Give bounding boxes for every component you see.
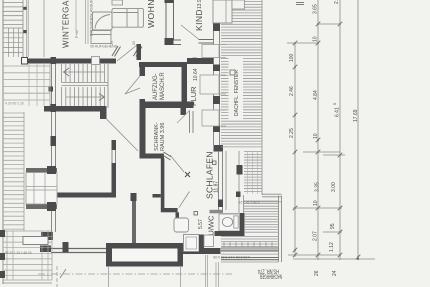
left boundary line xyxy=(2,0,4,284)
bay window panes xyxy=(26,173,57,205)
svg-text:17.69: 17.69 xyxy=(353,109,359,122)
thin vertical line a xyxy=(108,266,110,287)
railing glazing grid xyxy=(3,28,23,57)
svg-text:5.57: 5.57 xyxy=(198,219,204,229)
window wall stub upper xyxy=(112,140,117,150)
svg-text:95 30 1.33 1.66 30: 95 30 1.33 1.66 30 xyxy=(5,251,32,255)
wall right of shower xyxy=(199,235,204,254)
kind room bottom wall right part xyxy=(199,40,215,44)
window wall stub lower xyxy=(112,163,117,193)
svg-text:2.46: 2.46 xyxy=(289,86,295,96)
wall4 thin double line xyxy=(51,248,106,250)
wall stub above shaft head xyxy=(131,193,137,201)
svg-text:KIND: KIND xyxy=(194,9,204,31)
dimension chain D line xyxy=(357,0,359,257)
wall right of toilet xyxy=(240,213,245,231)
aufzug room left wall upper xyxy=(140,62,146,76)
chimney block bedroom xyxy=(237,165,243,175)
schrankraum left wall xyxy=(140,108,146,159)
svg-text:AUFZUG-: AUFZUG- xyxy=(153,73,159,100)
neighbour boundary top double line xyxy=(262,193,282,195)
right wall step chunk xyxy=(214,145,224,152)
hatch between ridge bands xyxy=(221,251,279,253)
aufzug wall stub below xyxy=(181,108,187,115)
svg-text:DACHFL. FENSTER: DACHFL. FENSTER xyxy=(234,69,240,116)
aufzug room left wall lower xyxy=(140,99,146,107)
wall right of shaft xyxy=(183,248,221,254)
wintergarten railing rungs xyxy=(3,0,23,57)
svg-text:4.84: 4.84 xyxy=(313,90,319,100)
wall line down to shaft xyxy=(132,201,136,243)
svg-text:24: 24 xyxy=(332,270,338,276)
left exterior wall upper window xyxy=(52,63,56,106)
roof right edge xyxy=(261,0,263,195)
svg-text:13.9: 13.9 xyxy=(197,0,203,9)
wall right of flur top xyxy=(187,58,214,64)
lower terrace edge xyxy=(23,112,25,231)
window niche 1 xyxy=(202,45,219,58)
lower boundary line xyxy=(244,201,282,203)
window niche 3 xyxy=(202,110,219,126)
bay window dark block bottom xyxy=(47,202,56,211)
wall4 left dark piece xyxy=(40,246,51,253)
property dash-dot line xyxy=(38,273,232,275)
top equals mark xyxy=(296,3,304,5)
bay window dark block top xyxy=(47,166,56,174)
svg-text:RAUM 3.96: RAUM 3.96 xyxy=(160,123,166,151)
left wall small pier a xyxy=(49,87,54,92)
toilet xyxy=(219,214,240,231)
svg-text:4.30 2.26 1.10 3.25 0.95: 4.30 2.26 1.10 3.25 0.95 xyxy=(213,255,250,259)
svg-text:20: 20 xyxy=(110,41,114,45)
schrankraum bottom wall xyxy=(140,154,165,159)
aufzug room bottom wall xyxy=(140,102,194,109)
left exterior wall middle window xyxy=(52,112,56,168)
leader line with P mark xyxy=(75,0,77,31)
duwc corner white box xyxy=(204,235,214,247)
partition tee stub xyxy=(153,194,161,198)
bedroom partition wall vertical xyxy=(161,159,165,209)
kind room left wall xyxy=(166,0,174,45)
pier in bottom room xyxy=(63,242,69,252)
upper terrace decking xyxy=(3,66,50,100)
right wall piers xyxy=(213,0,220,132)
svg-text:2.0: 2.0 xyxy=(334,0,340,4)
svg-text:MASCH.R: MASCH.R xyxy=(160,72,166,100)
washbasin xyxy=(174,218,189,232)
svg-text:WOHNEN: WOHNEN xyxy=(146,0,156,28)
stair arrow up xyxy=(64,68,70,76)
partition bottom wall xyxy=(161,208,178,212)
door width tick right xyxy=(134,46,143,57)
flur bedroom divider wall xyxy=(189,111,191,133)
main roof hatch lower xyxy=(244,152,262,195)
stub window lines xyxy=(111,150,113,163)
wall2 corner stub xyxy=(100,106,107,119)
right exterior wall upper lines xyxy=(213,0,215,145)
dachverglasung double line xyxy=(85,0,87,44)
niche 2 reveals xyxy=(220,74,227,76)
kind door swing xyxy=(181,25,199,39)
svg-text:4.30 60 2.26: 4.30 60 2.26 xyxy=(5,102,24,106)
chain D tick xyxy=(356,255,361,260)
wall below stair hall xyxy=(44,106,103,112)
slash tick xyxy=(60,269,66,278)
svg-text:HS.NR. 274: HS.NR. 274 xyxy=(258,268,279,275)
svg-text:1.12: 1.12 xyxy=(329,242,335,252)
duwc door leaf diagonal xyxy=(179,192,190,208)
svg-text:P+M: P+M xyxy=(75,31,79,39)
duwc bottom wall xyxy=(215,231,245,236)
aufzug room right wall xyxy=(182,62,188,107)
left exterior wall lower window xyxy=(52,209,56,232)
center cross mark xyxy=(185,172,190,177)
dimension chain A line xyxy=(294,43,296,257)
neighbour hatch ticks xyxy=(224,242,272,247)
wintergarten inner edge double line xyxy=(26,0,28,57)
small square symbol xyxy=(194,212,198,216)
svg-text:100: 100 xyxy=(289,53,295,62)
terrace edge line xyxy=(43,0,45,57)
terrace strip next to bedroom xyxy=(223,150,244,213)
hatch below band2 xyxy=(221,261,279,263)
chain D end dot xyxy=(357,258,359,260)
svg-text:95: 95 xyxy=(330,223,336,229)
window niche 2 xyxy=(200,75,219,94)
main roof hatch upper xyxy=(221,2,262,147)
lower terrace verticals xyxy=(7,231,48,280)
wall1 left end post xyxy=(22,58,28,65)
right exterior wall lower lines xyxy=(218,151,220,210)
shaft room walls xyxy=(106,243,183,267)
armchair xyxy=(93,12,113,30)
lower terrace detail lines xyxy=(3,231,52,280)
chain C ticks xyxy=(338,22,343,258)
dimension chain B line xyxy=(317,0,319,260)
niche 1 reveals xyxy=(220,44,227,46)
svg-text:26: 26 xyxy=(314,270,320,276)
left edge pier blocks xyxy=(0,230,5,237)
staircase treads lower flight xyxy=(62,87,105,108)
sofa xyxy=(112,8,143,27)
window box in wall1 xyxy=(92,57,100,65)
left wall pier mid xyxy=(51,104,57,112)
white inset box xyxy=(23,237,48,245)
wall top of stair hall xyxy=(28,59,117,64)
thin vertical line b xyxy=(180,266,182,287)
duwc top wall xyxy=(210,210,242,214)
neighbour ridge band 1 xyxy=(221,247,279,249)
svg-text:3.00: 3.00 xyxy=(331,182,337,192)
svg-text:5: 5 xyxy=(333,103,337,105)
svg-text:2.25: 2.25 xyxy=(289,128,295,138)
wall pier below chimney xyxy=(236,192,241,198)
schrankraum door ticks xyxy=(163,152,172,160)
low table xyxy=(91,31,111,44)
terrace dividers xyxy=(29,63,44,106)
shaft room interior xyxy=(112,249,178,262)
duwc wall projection lines xyxy=(206,255,219,287)
svg-text:10: 10 xyxy=(313,200,319,206)
railing posts xyxy=(23,7,27,10)
svg-text:3.65: 3.65 xyxy=(313,4,319,14)
table top xyxy=(112,0,123,5)
extension lines xyxy=(287,24,375,259)
duwc left wall xyxy=(176,212,180,218)
neighbour roof hatch upper xyxy=(244,201,279,232)
aufzug door swing wedge xyxy=(125,76,140,94)
staircase treads upper flight xyxy=(62,64,105,83)
niche 3 reveals xyxy=(220,109,227,111)
svg-text:10: 10 xyxy=(313,133,319,139)
schrankraum door leaf xyxy=(170,155,184,172)
dimension chain C line xyxy=(339,0,341,260)
neighbour ridge band 2 xyxy=(221,257,279,259)
bay window top sill xyxy=(26,168,57,173)
corner window blocks xyxy=(41,232,53,240)
wall stub above aufzug xyxy=(137,44,142,60)
svg-text:6.41: 6.41 xyxy=(335,107,341,117)
svg-text:3.35: 3.35 xyxy=(315,182,321,192)
svg-text:10: 10 xyxy=(313,36,319,42)
svg-text:20: 20 xyxy=(132,41,136,45)
staircase side edge xyxy=(107,64,109,108)
bay window bottom sill xyxy=(26,204,57,209)
svg-text:10.64: 10.64 xyxy=(193,68,199,81)
door width tick left xyxy=(112,46,121,57)
stair arrow down xyxy=(99,94,105,101)
vertical dash line xyxy=(56,266,58,287)
grid bottom border xyxy=(3,282,52,284)
small roof symbol xyxy=(230,70,235,75)
left wall pier top xyxy=(51,57,57,64)
left wall pier low xyxy=(51,136,57,146)
door leaf diagonal xyxy=(117,45,137,61)
neighbour roof hatch main xyxy=(221,237,279,247)
kind wall bottom corner block xyxy=(165,38,174,45)
shower tray xyxy=(184,235,200,252)
staircase landing lines xyxy=(62,82,109,84)
flur door swing xyxy=(177,110,190,123)
lower wall pier xyxy=(218,200,223,208)
lower terrace decking xyxy=(3,113,24,229)
svg-text:FLUR: FLUR xyxy=(189,86,198,106)
kind room bottom wall xyxy=(166,40,181,45)
wall3 xyxy=(45,193,116,198)
svg-text:WINTERGARTEN: WINTERGARTEN xyxy=(62,0,71,48)
kind wall top cap xyxy=(165,0,174,3)
chimney boxes top xyxy=(213,0,232,23)
chain B ticks xyxy=(316,22,321,258)
dachfl fenster text panel xyxy=(229,58,244,120)
hall door swing xyxy=(107,119,139,151)
svg-text:2.07: 2.07 xyxy=(313,231,319,241)
chain A ticks xyxy=(293,41,298,258)
neighbour boundary right double line xyxy=(278,196,280,263)
aufzug room top wall xyxy=(139,62,187,67)
